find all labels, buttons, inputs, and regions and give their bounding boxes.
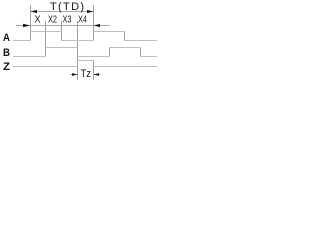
svg-text:X3: X3 — [63, 15, 72, 26]
svg-text:X2: X2 — [48, 15, 57, 26]
svg-text:X: X — [35, 15, 41, 26]
svg-text:A: A — [3, 32, 10, 44]
svg-text:T(TD): T(TD) — [50, 1, 84, 13]
svg-text:Z: Z — [3, 61, 10, 73]
svg-text:Tz: Tz — [81, 68, 92, 80]
svg-text:B: B — [3, 47, 10, 59]
svg-text:X4: X4 — [78, 15, 87, 26]
